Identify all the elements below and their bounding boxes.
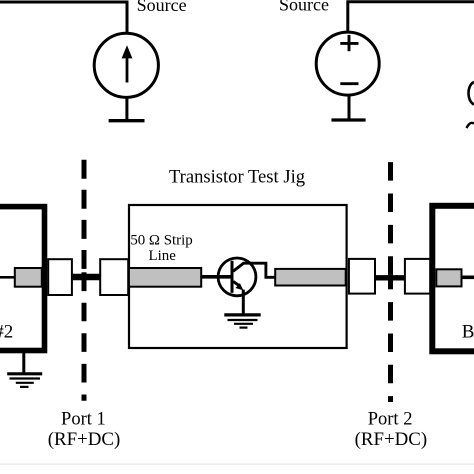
minus sign: [340, 82, 358, 85]
svg-text:Source: Source: [137, 0, 187, 15]
current source arrow: [122, 45, 133, 82]
svg-text:B: B: [462, 322, 474, 343]
base wire: [201, 275, 233, 279]
svg-text:(RF+DC): (RF+DC): [48, 429, 121, 450]
port 2 reference plane (dashed, lower): [388, 302, 393, 402]
ground bar (voltage source): [331, 118, 365, 121]
cropped glyph at right edge: [467, 82, 474, 128]
svg-text:Source: Source: [279, 0, 329, 14]
bias tee box #1 (cropped at right): [432, 206, 474, 351]
port 2 reference plane (dashed, upper): [388, 162, 393, 275]
svg-text:Line: Line: [149, 248, 177, 264]
wire top-left to current source: [0, 2, 127, 32]
svg-text:#2: #2: [0, 322, 13, 343]
plus sign: [340, 35, 358, 51]
connector (jig port 1): [100, 259, 128, 295]
bias tee box #2 (cropped at left): [0, 207, 45, 351]
svg-text:Transistor Test Jig: Transistor Test Jig: [169, 167, 305, 188]
strip line in bias tee #1: [436, 269, 461, 286]
voltage source V1: [316, 32, 379, 95]
thick coax wire across port 1 plane: [71, 274, 101, 281]
emitter wire to ground: [242, 290, 245, 315]
current source I1: [94, 33, 158, 97]
strip line in bias tee #2: [15, 268, 42, 287]
transistor test jig box: [129, 205, 347, 348]
wire top-right to voltage source: [348, 2, 474, 32]
wire to left edge: [0, 276, 14, 279]
connector (bias tee #2 output): [48, 259, 72, 295]
ground (emitter): [224, 315, 260, 328]
strip line left (jig): [129, 268, 201, 287]
svg-text:(RF+DC): (RF+DC): [355, 429, 428, 450]
svg-text:Port 2: Port 2: [368, 410, 413, 430]
connector (jig port 2): [349, 259, 375, 294]
wire bias tee #2 to ground: [22, 353, 25, 374]
wire to right edge: [462, 275, 474, 279]
svg-text:50 Ω Strip: 50 Ω Strip: [130, 232, 192, 248]
ground bar (current source): [109, 119, 145, 122]
wire voltage source to ground: [348, 95, 351, 120]
thick coax wire across port 2 plane: [374, 275, 407, 280]
svg-text:Port 1: Port 1: [61, 410, 106, 430]
port 1 reference plane (dashed, lower): [82, 303, 87, 401]
connector (bias tee #1 input): [405, 259, 430, 294]
port 1 reference plane (dashed, upper): [82, 160, 87, 269]
port 1 plane dash at crossing: [82, 272, 87, 291]
transistor Q1: [218, 258, 275, 296]
strip line right (jig): [275, 269, 346, 286]
ground (bias tee #2): [7, 374, 42, 387]
port 2 plane dash at crossing: [388, 275, 393, 290]
wire current source to ground: [125, 97, 128, 121]
faint separator line at bottom: [0, 463, 474, 465]
